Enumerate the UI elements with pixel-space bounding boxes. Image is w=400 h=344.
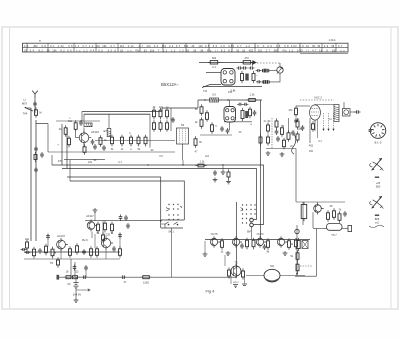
stage2 transistor TS3	[91, 220, 97, 232]
af stub wires	[26, 248, 28, 252]
stage2 down wire	[91, 232, 93, 238]
bottom rail right vertical	[236, 202, 238, 277]
diode arrow	[253, 61, 258, 65]
svg-text:3.3: 3.3	[108, 48, 113, 52]
wire to if transformer	[170, 108, 172, 131]
svg-text:x.x: x.x	[340, 49, 345, 52]
mid column wires	[252, 63, 254, 67]
resistor R1	[75, 120, 77, 132]
resistor R61	[241, 61, 254, 63]
meter M1	[277, 67, 283, 73]
svg-text:6.8: 6.8	[42, 44, 47, 48]
svg-text:6.8: 6.8	[284, 44, 289, 48]
svg-text:2.2k: 2.2k	[58, 44, 65, 48]
driver grounds	[226, 251, 231, 255]
band leader line	[300, 53, 348, 55]
top sub-circuit wire	[199, 62, 252, 64]
svg-text:4.9: 4.9	[24, 44, 29, 48]
cap C20	[172, 117, 174, 123]
valve top wires	[315, 104, 334, 106]
v-line from fm to bus	[295, 149, 297, 203]
svg-text:1k2: 1k2	[205, 155, 210, 158]
bus wire 1	[52, 164, 250, 166]
right bottom wire	[295, 275, 317, 277]
svg-text:1.3: 1.3	[179, 48, 184, 52]
resistor R4	[100, 135, 102, 147]
svg-text:AGC 2: AGC 2	[314, 96, 322, 100]
dashed arrows under valve	[323, 113, 325, 129]
svg-text:U: U	[23, 98, 25, 102]
right chain comp 3	[297, 262, 299, 274]
svg-text:3.3: 3.3	[154, 44, 159, 48]
right parallel vertical	[316, 229, 318, 277]
svg-text:Fig 4: Fig 4	[206, 289, 216, 294]
wire to valve	[296, 105, 310, 107]
svg-text:4.7: 4.7	[139, 44, 144, 48]
caps under tube	[221, 126, 223, 132]
output box left lead	[313, 228, 327, 230]
dashed feed to meter	[257, 62, 280, 64]
stage2 resistors	[97, 222, 99, 234]
battery wire	[75, 277, 77, 282]
resistor R30	[295, 106, 297, 118]
svg-text:0.9: 0.9	[268, 44, 273, 48]
output transformer T1	[334, 105, 339, 122]
caps right of tube	[237, 103, 243, 105]
svg-text:S10: S10	[228, 91, 233, 94]
mixer can bottom wire	[224, 121, 252, 123]
svg-text:1.2: 1.2	[83, 48, 88, 52]
svg-text:8.2: 8.2	[228, 48, 233, 52]
svg-text:15k: 15k	[102, 44, 107, 48]
rf top rail 2	[84, 113, 150, 115]
svg-text:4.9: 4.9	[220, 44, 225, 48]
af top stubs	[47, 234, 49, 247]
svg-text:AC107: AC107	[57, 234, 65, 238]
page inner margin right	[390, 28, 392, 308]
rf input drop wire	[47, 124, 49, 153]
fm resistor stack	[281, 125, 283, 137]
right chain box with cross	[302, 241, 308, 249]
svg-text:Bu K: Bu K	[82, 238, 88, 242]
svg-text:1.2k: 1.2k	[200, 161, 205, 164]
svg-text:560: 560	[184, 44, 189, 48]
left bottom box on vertical	[35, 152, 37, 162]
svg-text:4k7: 4k7	[103, 130, 108, 133]
svg-text:110: 110	[96, 44, 101, 48]
valve lower box	[312, 121, 314, 132]
right comps	[327, 210, 329, 222]
driver resistors	[221, 238, 223, 250]
resistors right of tube	[242, 108, 244, 121]
svg-text:1.2k: 1.2k	[250, 93, 256, 97]
switch bank SK2 dot grid	[242, 204, 243, 205]
cap on bus	[214, 170, 216, 176]
svg-text:B5X12A−: B5X12A−	[161, 82, 179, 87]
left small blobs on verticals	[35, 146, 37, 152]
right section wires	[296, 201, 345, 203]
resistor R5	[84, 144, 86, 155]
sub-circuit right wires	[269, 70, 276, 72]
svg-text:OC74: OC74	[257, 232, 264, 236]
mid column coil	[245, 74, 248, 81]
stage2 rail step at sk1	[161, 224, 165, 228]
mixer can T20 top-view	[224, 107, 236, 123]
sk2 contact marks	[241, 208, 244, 212]
stage2 lower comp	[102, 232, 104, 242]
junction dot top wire	[252, 62, 254, 64]
svg-text:1.3mA: 1.3mA	[329, 39, 336, 42]
mid col wires	[149, 114, 151, 147]
right chain wire	[296, 225, 298, 276]
col resistors mid	[153, 108, 155, 120]
transistor TS5	[106, 236, 113, 250]
fm dashed vertical	[271, 118, 273, 148]
dashed agc line	[300, 99, 334, 101]
svg-text:AC125: AC125	[102, 233, 110, 237]
svg-text:15k: 15k	[150, 48, 155, 52]
svg-text:M: M	[39, 111, 41, 115]
svg-text:8.2: 8.2	[39, 48, 44, 52]
cap C30	[295, 118, 297, 124]
top rail components: coil S5	[210, 98, 219, 102]
switch contact	[26, 108, 33, 111]
svg-text:AF117: AF117	[86, 214, 94, 218]
trap component	[35, 107, 37, 118]
right chain bottom dot	[296, 273, 298, 275]
svg-text:B 1–5: B 1–5	[375, 141, 382, 145]
af pot below rail	[57, 257, 59, 267]
if row resistors	[111, 135, 113, 147]
svg-text:0.5: 0.5	[68, 44, 73, 48]
comp under bus	[228, 169, 230, 179]
svg-text:8.2: 8.2	[221, 48, 226, 52]
svg-text:1.8: 1.8	[276, 44, 281, 48]
coil right of tube	[245, 111, 248, 118]
battery ground	[75, 288, 77, 298]
bus wire 4	[70, 181, 184, 220]
right chain electrolytic	[295, 229, 299, 233]
svg-text:0.4: 0.4	[169, 44, 174, 48]
svg-text:x.x: x.x	[127, 49, 132, 52]
switch bank SK1 dot grid	[168, 204, 169, 205]
svg-text:II: II	[215, 48, 218, 52]
driver transistors	[214, 236, 220, 248]
emitter wire	[83, 143, 85, 147]
svg-text:9V: 9V	[67, 283, 70, 286]
svg-text:5.6: 5.6	[67, 48, 72, 52]
top rail resistor R21	[246, 99, 258, 101]
svg-text:T10: T10	[203, 90, 208, 93]
rail drop left	[81, 112, 83, 122]
fm extra column mid	[276, 118, 278, 129]
wire trafo down	[182, 144, 184, 160]
sk1 contact marks	[166, 206, 182, 211]
t2 emitter wires	[230, 276, 232, 284]
svg-text:120Ω: 120Ω	[143, 282, 149, 285]
svg-text:452: 452	[309, 145, 314, 148]
svg-text:1.2: 1.2	[75, 44, 80, 48]
mid column resistor	[241, 71, 243, 83]
svg-text:S9: S9	[181, 123, 185, 127]
wire antenna to rf block	[36, 123, 48, 125]
resistor on bus	[195, 165, 206, 167]
small squiggle under arrows 2	[369, 225, 384, 227]
svg-text:452: 452	[249, 48, 254, 52]
transistor TS4	[61, 238, 68, 251]
driver trafo comps	[228, 267, 230, 278]
junctions on rail	[227, 99, 229, 101]
right transistor TS8	[318, 203, 324, 215]
svg-text:0.7: 0.7	[176, 44, 181, 48]
stage2 rail	[85, 220, 161, 222]
ts1 wires	[76, 130, 80, 138]
svg-text:0.1: 0.1	[118, 161, 122, 164]
svg-text:TS 7: TS 7	[331, 233, 337, 237]
page inner margin left	[9, 28, 11, 308]
bus junction dots	[147, 164, 148, 165]
svg-text:47p: 47p	[135, 48, 140, 52]
af comps 2	[69, 246, 71, 258]
antenna down wire	[34, 98, 36, 113]
right chain comp 2	[297, 250, 299, 262]
left stage bottom wire 2	[64, 159, 105, 161]
transistor TS1	[84, 131, 91, 145]
dial-cord table band	[23, 43, 349, 52]
svg-text:o.d: o.d	[246, 44, 251, 48]
battery symbol	[73, 283, 78, 288]
svg-text:560: 560	[274, 48, 279, 52]
capacitor C2	[92, 139, 94, 145]
svg-text:M4: M4	[270, 264, 274, 268]
bottom rail	[57, 276, 237, 278]
alignment arrows 2	[372, 196, 382, 208]
sk2 bottom wire	[251, 226, 253, 240]
mixer bias caps	[94, 144, 96, 150]
connector blobs at sk2	[250, 218, 254, 222]
right chain comp 1	[298, 238, 300, 251]
bus left stubs	[51, 155, 53, 165]
svg-text:110: 110	[198, 44, 203, 48]
af input pot	[26, 239, 28, 250]
cap near left bottom	[41, 152, 43, 158]
svg-text:110: 110	[258, 48, 263, 52]
svg-text:452: 452	[309, 150, 314, 153]
right vertical drop x260	[260, 100, 262, 238]
svg-text:1.3: 1.3	[289, 48, 294, 52]
svg-text:0.6V: 0.6V	[291, 44, 297, 48]
mid column caps	[237, 67, 243, 69]
right section box	[303, 202, 305, 221]
rf input line	[56, 120, 100, 122]
speaker feed box	[343, 109, 351, 117]
rail resistors	[63, 276, 73, 278]
svg-text:1.5: 1.5	[255, 44, 260, 48]
IF transformer dotted	[177, 128, 189, 144]
stage2 top ground	[94, 213, 96, 221]
mixer can leads	[229, 100, 231, 107]
svg-text:2.7: 2.7	[82, 44, 87, 48]
coil S1	[84, 123, 92, 127]
fm grounds	[266, 151, 271, 155]
capacitor C1	[80, 120, 82, 126]
mid column resistor 2	[253, 71, 255, 83]
svg-text:xx2: xx2	[375, 222, 380, 225]
svg-text:1.2: 1.2	[89, 44, 94, 48]
fm extra column right	[297, 118, 299, 129]
tube socket diagram	[370, 123, 386, 139]
svg-text:0.1: 0.1	[212, 65, 216, 69]
fm curved wire	[292, 134, 296, 154]
af preamp rail	[24, 251, 120, 253]
resistor R20	[195, 136, 197, 148]
svg-text:0.85: 0.85	[228, 44, 234, 48]
svg-text:0.4: 0.4	[90, 48, 95, 52]
coil S20	[262, 69, 270, 73]
svg-text:A: A	[263, 44, 265, 48]
stage2 down wire 2	[102, 221, 104, 234]
resistor R3	[68, 136, 70, 148]
can top-view T10	[221, 69, 235, 86]
can leads	[206, 72, 221, 74]
coil S21	[262, 80, 270, 84]
battery feed verticals	[70, 259, 72, 277]
caps above rail	[74, 265, 76, 271]
af comps row	[33, 247, 35, 259]
sk1 bottom line 2	[161, 227, 183, 229]
fm extra column left	[267, 122, 269, 133]
meter drop wire	[279, 63, 281, 67]
af lower rail	[24, 258, 120, 260]
svg-text:0.7: 0.7	[111, 44, 116, 48]
mid tie wire	[182, 160, 184, 165]
battery arrow tap	[76, 289, 90, 291]
driver trafo	[236, 264, 243, 278]
svg-text:47p: 47p	[282, 48, 287, 52]
resistors left of tube	[201, 104, 203, 116]
svg-text:5.6: 5.6	[212, 93, 216, 97]
svg-text:2.7: 2.7	[266, 48, 271, 52]
cap on rail	[82, 276, 88, 278]
svg-text:0.85: 0.85	[297, 48, 303, 52]
left stage bottom wire	[48, 151, 175, 153]
af left input caps	[21, 249, 27, 251]
sk1 lower contacts	[165, 222, 178, 225]
svg-text:4.7: 4.7	[312, 48, 317, 52]
svg-text:452: 452	[33, 44, 38, 48]
rail step to if	[161, 108, 163, 112]
bottom rail comps	[121, 276, 127, 278]
valve leads	[314, 120, 316, 131]
speaker wires	[246, 275, 264, 277]
svg-text:0.9: 0.9	[299, 44, 304, 48]
resistor R22	[211, 122, 213, 134]
resistor R2	[65, 125, 67, 137]
socket notch	[369, 129, 371, 131]
svg-text:M07: M07	[22, 102, 28, 106]
left long vertical wire 1	[30, 108, 32, 241]
svg-text:1.2: 1.2	[171, 48, 176, 52]
output box right lead	[342, 228, 348, 230]
svg-text:100: 100	[332, 48, 337, 52]
bias resistor stack	[260, 134, 262, 145]
left long vertical wire 2	[35, 120, 37, 241]
svg-text:110: 110	[120, 44, 125, 48]
svg-text:0.1: 0.1	[50, 44, 55, 48]
speaker feed wires	[350, 111, 356, 113]
driver rail	[205, 239, 310, 241]
svg-text:0.4: 0.4	[30, 48, 35, 52]
svg-text:110: 110	[162, 44, 167, 48]
svg-text:2.7: 2.7	[237, 44, 242, 48]
bus right bends	[250, 165, 264, 225]
alignment arrows 1	[372, 158, 382, 170]
svg-text:8.2: 8.2	[60, 48, 65, 52]
svg-text:470: 470	[58, 160, 63, 163]
bus wire 3	[67, 177, 161, 228]
coil left caps	[256, 70, 262, 72]
antenna	[32, 91, 38, 98]
svg-text:m: m	[39, 40, 41, 43]
coil S2	[107, 129, 111, 137]
bottom rail end blob	[57, 275, 60, 280]
stage2 rail junction dot	[160, 220, 162, 222]
sk1 bottom line	[161, 219, 185, 221]
rf block verticals	[61, 124, 63, 165]
t2 ground squiggles	[233, 284, 247, 288]
svg-text:SkF: SkF	[247, 231, 252, 234]
svg-text:1.2: 1.2	[163, 48, 168, 52]
svg-text:OC75: OC75	[211, 232, 218, 236]
valve B1 envelope	[310, 105, 321, 120]
svg-text:470: 470	[244, 56, 249, 60]
speaker LS	[264, 269, 280, 281]
rail step to mixer	[197, 100, 199, 108]
right dashed link	[300, 265, 313, 267]
svg-text:AF116: AF116	[91, 130, 99, 134]
wire under tube	[200, 134, 232, 136]
bus wire 2	[62, 168, 250, 170]
svg-text:3k9: 3k9	[212, 56, 217, 60]
sk1 down wire	[171, 228, 173, 277]
svg-text:2.2k: 2.2k	[128, 44, 135, 48]
svg-text:47p: 47p	[207, 48, 212, 52]
volume pot arrow	[53, 252, 56, 256]
fm wires	[288, 118, 290, 132]
svg-text:0.3: 0.3	[98, 48, 103, 52]
sub-circuit bottom wire	[203, 86, 262, 88]
svg-text:0.7: 0.7	[338, 44, 343, 48]
mid ground stubs	[222, 165, 224, 170]
lower mid verticals	[204, 241, 206, 252]
svg-text:a b c: a b c	[233, 281, 239, 284]
af comps 3	[96, 246, 98, 258]
rf top rail	[82, 111, 162, 113]
antenna coupling cap	[34, 101, 36, 107]
svg-text:5.6: 5.6	[213, 44, 218, 48]
svg-text:II: II	[306, 48, 309, 52]
svg-text:47p: 47p	[147, 44, 152, 48]
svg-text:15k: 15k	[52, 48, 57, 52]
resistor R60	[208, 61, 221, 63]
svg-text:TA4: TA4	[23, 112, 28, 116]
svg-text:0.5: 0.5	[205, 44, 210, 48]
svg-text:x.x: x.x	[76, 49, 81, 52]
rounded output box	[327, 224, 343, 231]
svg-text:4.9: 4.9	[324, 44, 329, 48]
if row wire	[95, 140, 175, 142]
svg-text:2×4.5V: 2×4.5V	[73, 293, 82, 297]
